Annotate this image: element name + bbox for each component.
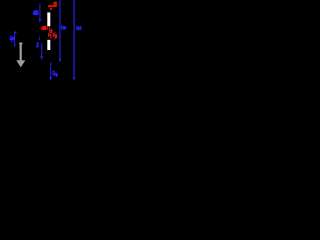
plate segment P1 (upper white bar of central rod): [47, 12, 50, 26]
dimension line D (long blue line with bottom arrowhead): [59, 0, 62, 62]
gray arrow W (large downward arrow, lower left): [16, 43, 25, 68]
plate segment P2 (lower white bar of central rod): [47, 40, 50, 50]
label R1 (red letter label, top): [54, 2, 57, 7]
label F (blue label right of arrow F): [53, 71, 58, 77]
background: [0, 0, 90, 90]
label D (blue label right of line D): [61, 25, 66, 29]
label B (blue label left of arrow B): [36, 42, 39, 47]
label E (blue label right of line E): [76, 26, 81, 31]
arrow F (blue down arrow below rod, bottom center): [49, 62, 52, 81]
arrow C (small blue down arrow, left): [14, 31, 17, 46]
tick B0 (small blue stroke above label B): [38, 37, 41, 41]
dimension line E (longer blue line with bottom arrowhead, right): [73, 0, 76, 81]
arrow B (blue down arrow, mid center): [40, 43, 43, 60]
red label cluster R3 row 1 (right of rod middle): [49, 27, 55, 33]
red arrow R1 (red arrow at rod top: left shaft + left head + down head): [48, 4, 54, 10]
dark red dot (below R3, on rod): [50, 37, 52, 39]
label A (blue label left of arrow A): [33, 10, 39, 15]
label C (blue label left of arrow C): [10, 36, 15, 43]
red label cluster R3 row 2 (right of rod, below row 1): [48, 33, 57, 40]
red label cluster R2 (left of rod middle): [41, 26, 47, 30]
arrow A (blue down arrow, top center): [38, 3, 41, 22]
